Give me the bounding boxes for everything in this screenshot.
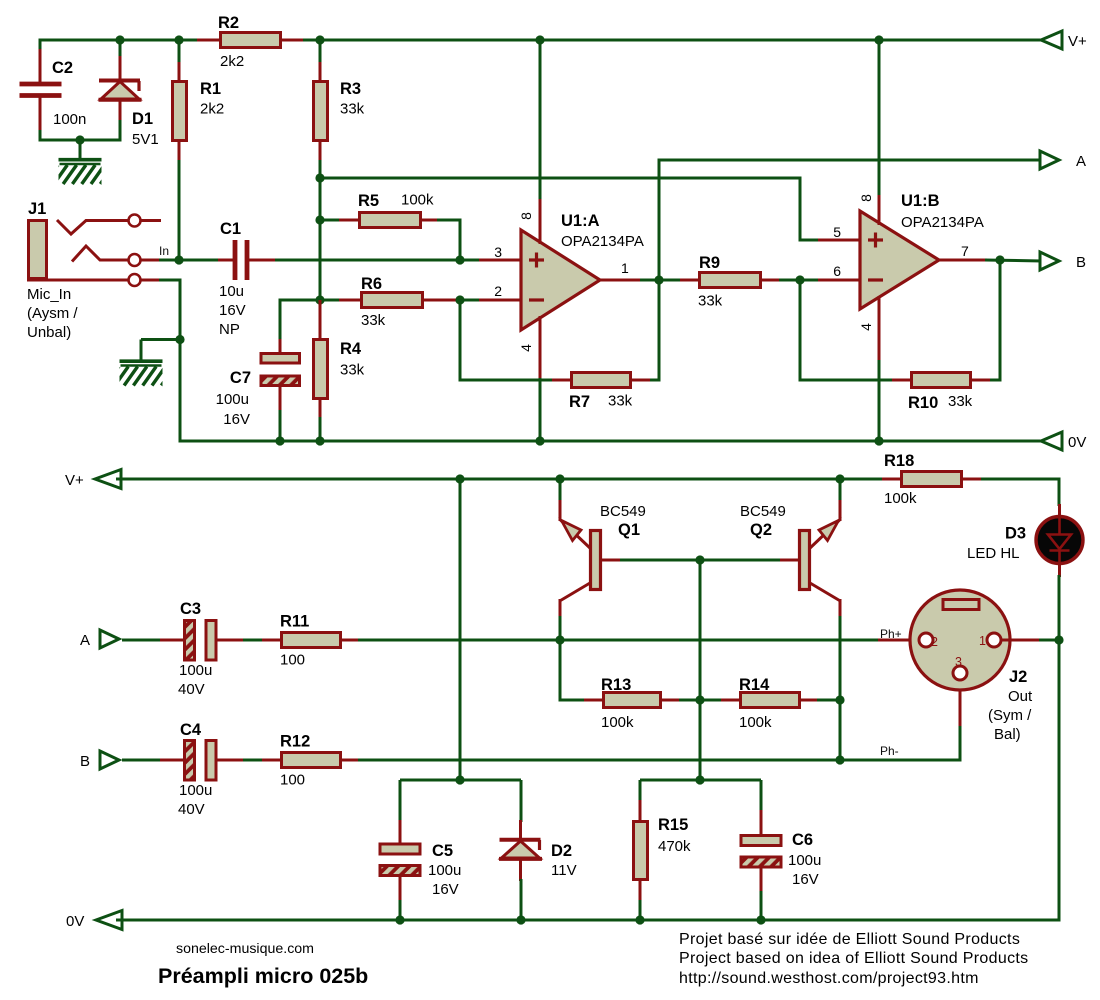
svg-text:Ph-: Ph- xyxy=(880,744,899,758)
wire C5/D2 bracket xyxy=(400,779,521,782)
svg-text:33k: 33k xyxy=(608,393,633,410)
svg-text:R14: R14 xyxy=(739,676,770,694)
wire Q1 base to Q2 base xyxy=(620,559,780,562)
svg-text:C2: C2 xyxy=(52,59,73,77)
resistor R15 470k xyxy=(639,800,642,822)
wire J2 pin3 vertical (green) xyxy=(959,724,962,760)
wire R9 to pin6 xyxy=(779,279,822,282)
wire C5 bottom lead xyxy=(399,900,402,922)
wire D1 bottom lead (green) xyxy=(119,120,122,142)
junction Q2 emitter xyxy=(835,474,844,483)
junction R4/0V xyxy=(315,436,324,445)
junction C5/D2 feed xyxy=(455,474,464,483)
wire R3 node to U1:B pin5 feed xyxy=(320,177,802,180)
wire J1 sleeve (green part) xyxy=(159,279,182,282)
wire Q1 collector (green) xyxy=(559,616,562,642)
junction Q1 collector/A row xyxy=(555,635,564,644)
capacitor C1 10u NP xyxy=(218,240,277,280)
pin 5 stub U1:B xyxy=(818,239,861,242)
svg-text:In: In xyxy=(159,244,169,258)
svg-text:BC549: BC549 xyxy=(600,503,646,520)
svg-text:100u: 100u xyxy=(216,391,249,408)
wire D2 bottom lead xyxy=(520,879,523,922)
wire down to D3 xyxy=(1058,479,1061,506)
svg-text:Unbal): Unbal) xyxy=(27,324,71,341)
wire C2 bottom lead (green) xyxy=(39,130,42,142)
wire ground stem xyxy=(79,140,82,160)
wire R3 bottom vertical (node A1) xyxy=(319,160,322,302)
svg-text:100u: 100u xyxy=(428,862,461,879)
svg-text:100: 100 xyxy=(280,652,305,669)
svg-text:100: 100 xyxy=(280,772,305,789)
svg-text:C4: C4 xyxy=(180,721,202,739)
svg-text:16V: 16V xyxy=(219,302,246,319)
svg-text:(Sym /: (Sym / xyxy=(988,707,1032,724)
pin 8 stub U1:B xyxy=(878,195,881,225)
svg-text:V+: V+ xyxy=(65,472,84,489)
svg-text:D1: D1 xyxy=(132,110,153,128)
svg-text:33k: 33k xyxy=(340,101,365,118)
junction pin4b/0V xyxy=(874,436,883,445)
svg-text:R18: R18 xyxy=(884,452,914,470)
wire pin6 vertical xyxy=(799,280,802,382)
connector J1 Mic_In xyxy=(27,215,161,287)
wire R6 to pin2 xyxy=(457,299,482,302)
wire U1:A output xyxy=(640,279,700,282)
wire C1 to U1:A pin3 xyxy=(275,259,482,262)
wire Q2 emitter (green) xyxy=(839,479,842,502)
svg-text:16V: 16V xyxy=(432,881,459,898)
svg-text:R3: R3 xyxy=(340,80,361,98)
junction C7/0V xyxy=(275,436,284,445)
wire U1:B pin8 from V+ rail xyxy=(878,39,881,198)
svg-text:100u: 100u xyxy=(788,852,821,869)
wire A row from flag xyxy=(122,639,186,642)
svg-text:0V: 0V xyxy=(66,913,84,930)
svg-text:40V: 40V xyxy=(178,801,205,818)
svg-text:100u: 100u xyxy=(179,662,212,679)
wire V+ bottom rail xyxy=(116,478,884,481)
svg-text:A: A xyxy=(1076,153,1086,170)
wire ground stem horizontal xyxy=(141,338,180,341)
flag B input (left) xyxy=(100,751,119,769)
wire C6 top lead (green) xyxy=(760,780,763,812)
svg-text:R5: R5 xyxy=(358,192,379,210)
svg-text:470k: 470k xyxy=(658,838,691,855)
junction R5 left xyxy=(315,215,324,224)
wire to R9 xyxy=(658,279,683,282)
capacitor C4 100u 40V xyxy=(160,759,186,762)
svg-text:C7: C7 xyxy=(230,369,251,387)
svg-text:Q1: Q1 xyxy=(618,521,640,539)
junction D1/V+ rail xyxy=(115,35,124,44)
junction pin8/V+ rail xyxy=(874,35,883,44)
wire A net to flag xyxy=(659,159,1042,162)
junction Q2/Ph- xyxy=(835,755,844,764)
flag V+ output (top right) xyxy=(1041,31,1062,49)
resistor R7 33k xyxy=(552,379,572,382)
wire D3 to 0V rail xyxy=(1058,575,1061,922)
wire 0V rail top section xyxy=(180,440,1043,443)
wire R14 right xyxy=(817,699,840,702)
svg-text:(Aysm /: (Aysm / xyxy=(27,305,78,322)
wire C6 bottom lead xyxy=(760,891,763,922)
junction Q1 emitter xyxy=(555,474,564,483)
svg-text:R15: R15 xyxy=(658,816,688,834)
pin 4 stub U1:A xyxy=(539,316,542,380)
wire R15 top lead (green) xyxy=(639,780,642,802)
svg-text:BC549: BC549 xyxy=(740,503,786,520)
wire C2/D1 bottom link xyxy=(39,139,122,142)
svg-text:16V: 16V xyxy=(223,411,250,428)
wire feedback row right xyxy=(650,379,659,382)
svg-text:Bal): Bal) xyxy=(994,726,1021,743)
svg-text:8: 8 xyxy=(858,194,874,202)
svg-text:http://sound.westhost.com/proj: http://sound.westhost.com/project93.htm xyxy=(679,970,979,987)
wire Q2 collector down to Ph- row xyxy=(839,616,842,762)
svg-text:J2: J2 xyxy=(1009,668,1027,686)
wire B row from flag xyxy=(122,759,186,762)
svg-text:100k: 100k xyxy=(401,192,434,209)
svg-text:Out: Out xyxy=(1008,688,1033,705)
svg-text:3: 3 xyxy=(494,244,502,260)
svg-text:R1: R1 xyxy=(200,80,221,98)
junction ground stem xyxy=(175,335,184,344)
wire R15 bottom lead xyxy=(639,900,642,922)
wire pin2 feedback vertical xyxy=(459,300,462,382)
junction pin8/V+ rail xyxy=(535,35,544,44)
junction D2/0V xyxy=(516,915,525,924)
svg-text:2: 2 xyxy=(931,635,938,649)
op-amp U1:B OPA2134PA xyxy=(860,211,939,309)
svg-text:R11: R11 xyxy=(280,613,309,631)
svg-text:33k: 33k xyxy=(948,393,973,410)
resistor R11 100 xyxy=(262,639,282,642)
wire B/Ph- row to J2 pin3 corner xyxy=(358,759,962,762)
svg-text:100k: 100k xyxy=(884,490,917,507)
svg-text:Project based on idea of Ellio: Project based on idea of Elliott Sound P… xyxy=(679,950,1028,967)
wire C7 top lead (green) xyxy=(279,300,282,341)
pin 1 stub J2 xyxy=(1001,639,1041,642)
junction R3/V+ rail xyxy=(315,35,324,44)
wire U1:B output to flag B xyxy=(985,260,1042,261)
junction output/A net xyxy=(654,275,663,284)
wire R1 top lead (green) xyxy=(178,40,181,64)
pin 4 stub U1:B xyxy=(878,296,881,362)
pin 7 stub U1:B xyxy=(937,259,987,262)
flag 0V (top right) xyxy=(1041,432,1062,450)
svg-text:4: 4 xyxy=(858,323,874,331)
svg-text:R2: R2 xyxy=(218,14,239,32)
svg-text:6: 6 xyxy=(833,263,841,279)
wire C3 to R11 xyxy=(243,639,264,642)
svg-text:1: 1 xyxy=(621,260,629,276)
wire D2 top lead (green) xyxy=(520,780,523,822)
junction C5/0V xyxy=(395,915,404,924)
junction C2/D1/ground xyxy=(75,135,84,144)
wire R5 right corner xyxy=(437,219,462,222)
svg-text:100k: 100k xyxy=(601,714,634,731)
capacitor C2 xyxy=(20,49,62,132)
svg-text:Ph+: Ph+ xyxy=(880,627,902,641)
wire U1:B pin5 vertical xyxy=(799,177,802,242)
pin 3 stub U1:A xyxy=(479,259,522,262)
svg-text:OPA2134PA: OPA2134PA xyxy=(561,233,644,250)
junction R3/R4/R6 xyxy=(315,295,324,304)
LED D3 xyxy=(1036,504,1083,577)
wire R10 row left xyxy=(800,379,894,382)
wire R13 left xyxy=(560,699,586,702)
junction R1/V+ rail xyxy=(174,35,183,44)
connector J2 Out xyxy=(910,590,1010,690)
svg-text:R7: R7 xyxy=(569,393,590,411)
wire C7 bottom lead xyxy=(279,410,282,443)
pin 3 stub J2 xyxy=(959,681,962,726)
wire R10 row right xyxy=(990,379,1002,382)
svg-text:V+: V+ xyxy=(1068,33,1087,50)
diode D2 (zener 11V) xyxy=(499,820,542,881)
wire U1:A pin8 from V+ rail xyxy=(539,39,542,202)
resistor R9 33k xyxy=(680,279,700,282)
resistor R12 100 xyxy=(262,759,282,762)
resistor R6 33k xyxy=(339,299,362,302)
wire Q1 emitter (green) xyxy=(559,479,562,502)
wire A row to J2 pin2 xyxy=(358,639,882,642)
svg-text:7: 7 xyxy=(961,243,969,259)
wire R3 top lead (green) xyxy=(319,40,322,64)
junction In/R1 xyxy=(174,255,183,264)
junction R15/0V xyxy=(635,915,644,924)
junction R15/C6 tee xyxy=(695,775,704,784)
svg-text:sonelec-musique.com: sonelec-musique.com xyxy=(176,941,314,957)
flag A input (left) xyxy=(100,630,119,648)
resistor R18 100k xyxy=(882,478,902,481)
svg-text:2k2: 2k2 xyxy=(200,101,224,118)
svg-text:33k: 33k xyxy=(698,293,723,310)
junction bases xyxy=(695,555,704,564)
wire V+ top rail right segment xyxy=(282,39,1043,42)
wire C2 top lead (green) xyxy=(39,39,42,52)
svg-text:R13: R13 xyxy=(601,676,631,694)
wire V+ feed down to C5/D2 xyxy=(459,479,462,782)
wire R4 bottom lead xyxy=(319,417,322,443)
wire A net vertical xyxy=(658,159,661,382)
wire base node down to R15/C6 feed xyxy=(699,560,702,782)
wire In row (J1 tip to C1) xyxy=(159,259,220,262)
resistor R14 100k xyxy=(721,699,741,702)
svg-text:C5: C5 xyxy=(432,842,453,860)
svg-text:4: 4 xyxy=(518,344,534,352)
junction R3 vertical / pin5 feed xyxy=(315,173,324,182)
svg-text:5V1: 5V1 xyxy=(132,131,159,148)
svg-text:10u: 10u xyxy=(219,283,244,300)
svg-text:U1:A: U1:A xyxy=(561,212,600,230)
svg-text:16V: 16V xyxy=(792,871,819,888)
svg-text:D2: D2 xyxy=(551,842,572,860)
wire D1 top lead (green) xyxy=(119,39,122,59)
svg-text:Préampli micro 025b: Préampli micro 025b xyxy=(158,964,368,988)
op-amp U1:A OPA2134PA xyxy=(521,230,600,330)
wire R13-R14 mid xyxy=(679,699,723,702)
capacitor C6 100u 16V xyxy=(760,810,763,836)
wire U1:A pin4 to 0V xyxy=(539,378,542,443)
svg-text:33k: 33k xyxy=(361,312,386,329)
svg-text:LED HL: LED HL xyxy=(967,545,1020,562)
junction R5/pin3 xyxy=(455,255,464,264)
wire V+ top rail left segment xyxy=(40,39,219,42)
svg-text:3: 3 xyxy=(955,655,962,669)
svg-text:2: 2 xyxy=(494,283,502,299)
svg-text:C3: C3 xyxy=(180,600,201,618)
junction pin2/feedback xyxy=(455,295,464,304)
svg-text:R4: R4 xyxy=(340,340,362,358)
junction D3/J2 pin1 xyxy=(1054,635,1063,644)
wire R5 left (green) xyxy=(320,219,341,222)
wire R1 to In node xyxy=(178,160,181,260)
capacitor C3 100u 40V xyxy=(160,639,186,642)
wire ground stem vertical xyxy=(140,340,143,362)
resistor R2 2k2 xyxy=(197,39,221,42)
svg-text:8: 8 xyxy=(518,212,534,220)
svg-text:OPA2134PA: OPA2134PA xyxy=(901,214,984,231)
flag V+ (bottom left) xyxy=(95,470,121,489)
svg-text:100u: 100u xyxy=(179,782,212,799)
svg-text:B: B xyxy=(1076,254,1086,271)
wire C4 to R12 xyxy=(243,759,264,762)
wire C5 top lead (green) xyxy=(399,780,402,822)
junction output B xyxy=(995,255,1004,264)
wire R10 to output xyxy=(999,260,1002,380)
wire Q1 collector to R13 xyxy=(559,639,562,702)
wire U1:B pin5 horizontal xyxy=(800,239,822,242)
wire J1 sleeve down to 0V rail xyxy=(179,280,182,443)
resistor R5 100k xyxy=(339,219,360,222)
wire U1:B pin4 to 0V xyxy=(878,360,881,443)
svg-text:D3: D3 xyxy=(1005,525,1026,543)
svg-text:100n: 100n xyxy=(53,111,86,128)
svg-text:100k: 100k xyxy=(739,714,772,731)
resistor R3 33k xyxy=(319,62,322,82)
wire J2 pin1 to D3 net xyxy=(1039,639,1061,642)
resistor R13 100k xyxy=(584,699,604,702)
svg-text:Q2: Q2 xyxy=(750,521,772,539)
svg-text:C1: C1 xyxy=(220,220,241,238)
pin 8 stub U1:A xyxy=(539,199,542,244)
svg-text:B: B xyxy=(80,753,90,770)
capacitor C5 100u 16V xyxy=(399,820,402,844)
svg-text:R12: R12 xyxy=(280,733,310,751)
resistor R10 33k xyxy=(892,379,912,382)
svg-text:C6: C6 xyxy=(792,831,813,849)
wire 0V bottom rail xyxy=(116,919,1061,922)
junction pin4/0V xyxy=(535,436,544,445)
svg-text:5: 5 xyxy=(833,224,841,240)
pin 1 stub U1:A xyxy=(598,279,642,282)
wire R15/C6 bracket xyxy=(640,779,761,782)
wire R5 to pin3 node xyxy=(459,220,462,260)
resistor R1 2k2 xyxy=(178,62,181,82)
pin 2 stub J2 xyxy=(878,639,919,642)
svg-text:Mic_In: Mic_In xyxy=(27,286,71,303)
junction C5/D2 tee xyxy=(455,775,464,784)
pin 6 stub U1:B xyxy=(818,279,861,282)
svg-text:33k: 33k xyxy=(340,362,365,379)
junction Q2/R14 xyxy=(835,695,844,704)
svg-text:A: A xyxy=(80,632,90,649)
junction R13/R14 xyxy=(695,695,704,704)
capacitor C7 100u 16V xyxy=(279,339,282,354)
svg-text:J1: J1 xyxy=(28,200,46,218)
svg-text:U1:B: U1:B xyxy=(901,192,940,210)
wire feedback row left xyxy=(460,379,554,382)
svg-text:11V: 11V xyxy=(551,862,577,879)
junction pin6/R10 net xyxy=(795,275,804,284)
pin 2 stub U1:A xyxy=(479,299,522,302)
diode D1 (zener 5V1) xyxy=(99,56,142,122)
svg-text:NP: NP xyxy=(219,321,240,338)
flag A output (right) xyxy=(1040,151,1059,169)
svg-text:R9: R9 xyxy=(699,254,720,272)
svg-text:0V: 0V xyxy=(1068,434,1086,451)
wire R18 to D3 corner xyxy=(981,478,1061,481)
svg-text:1: 1 xyxy=(979,634,986,648)
resistor R4 33k xyxy=(319,300,322,340)
svg-text:R6: R6 xyxy=(361,275,382,293)
svg-text:40V: 40V xyxy=(178,681,205,698)
svg-text:2k2: 2k2 xyxy=(220,53,244,70)
flag 0V (bottom left) xyxy=(96,911,122,930)
flag B output (right) xyxy=(1040,252,1059,270)
junction C6/0V xyxy=(756,915,765,924)
svg-text:R10: R10 xyxy=(908,394,938,412)
svg-text:Projet basé sur idée de Elliot: Projet basé sur idée de Elliott Sound Pr… xyxy=(679,931,1020,948)
wire C7/R6 row left xyxy=(279,299,342,302)
